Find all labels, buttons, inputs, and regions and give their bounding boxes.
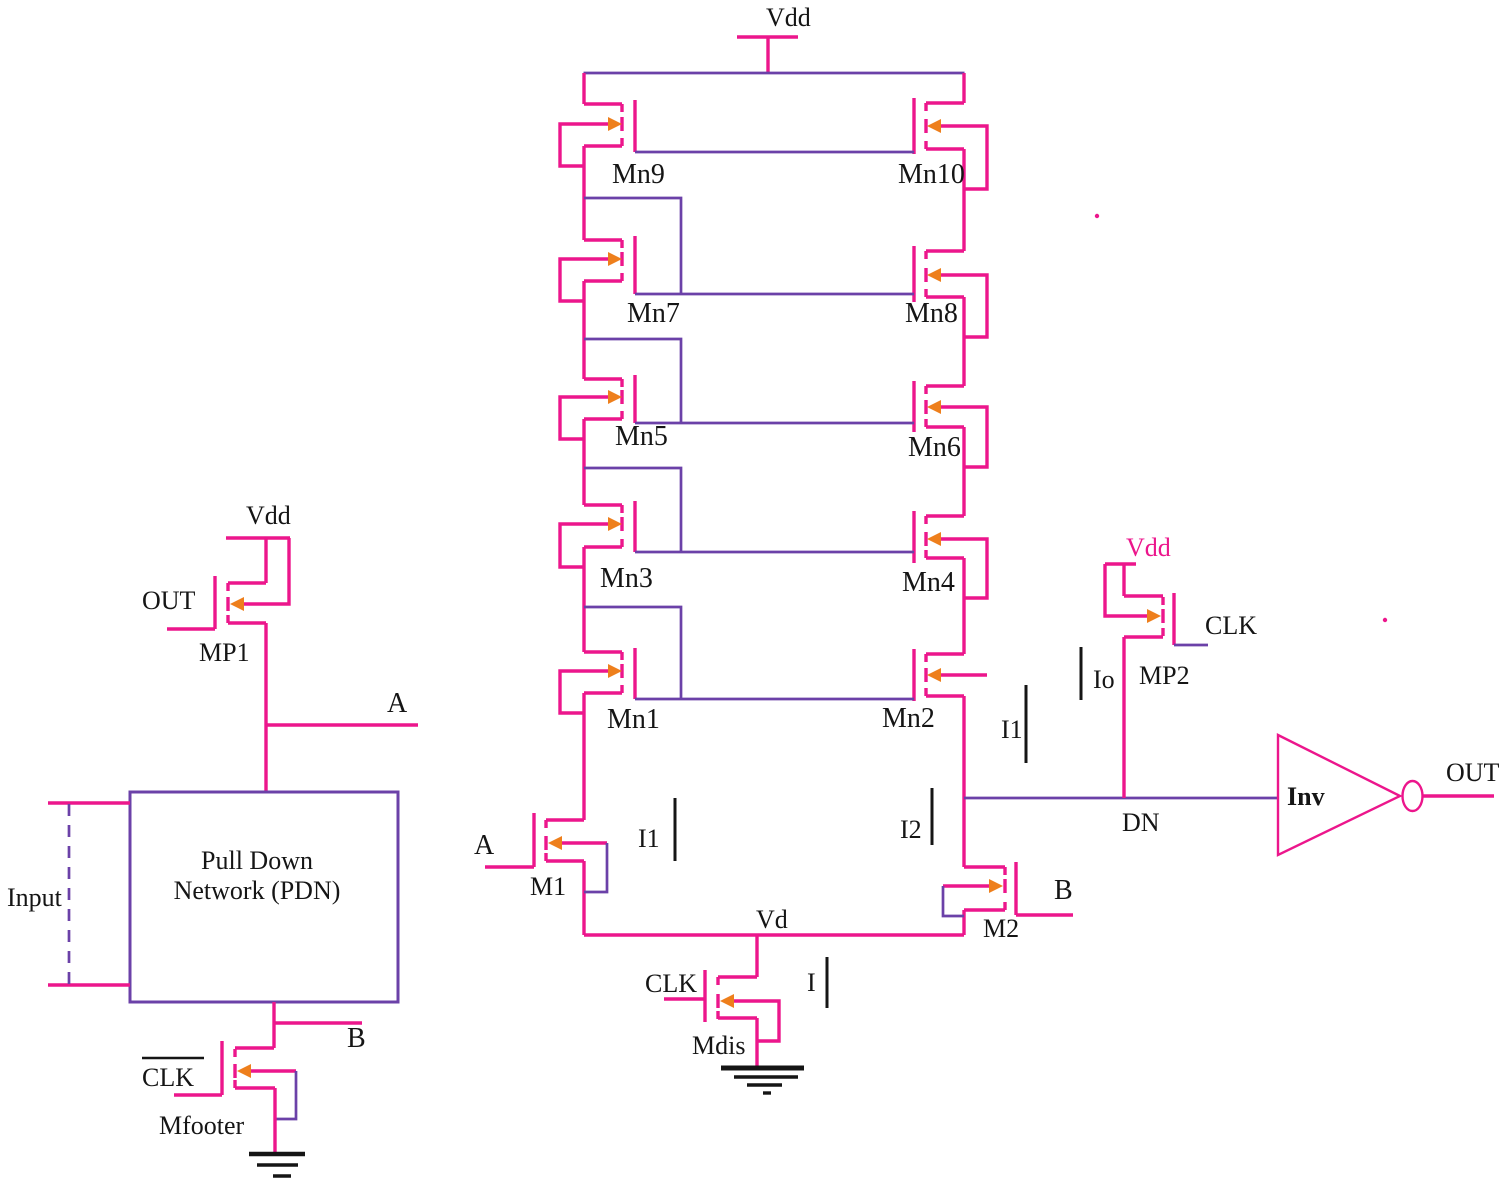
svg-text:Mn7: Mn7 (627, 298, 680, 329)
svg-text:Vd: Vd (756, 905, 788, 934)
svg-text:Vdd: Vdd (1126, 533, 1171, 562)
wire top rail (584, 72, 965, 75)
transistor M2 (943, 862, 1016, 916)
wire MP2 drain to DN (1122, 637, 1125, 798)
svg-text:A: A (474, 830, 495, 861)
current label I (807, 957, 827, 1008)
svg-text:Mfooter: Mfooter (159, 1111, 245, 1140)
svg-text:Mn5: Mn5 (615, 421, 668, 452)
svg-text:MP1: MP1 (199, 638, 250, 667)
wire left chain (582, 547, 585, 652)
inverter bubble (1403, 781, 1423, 811)
label CLK-bar (Mfooter gate) (142, 1058, 204, 1092)
svg-text:I1: I1 (1001, 715, 1023, 744)
svg-text:Mn4: Mn4 (902, 567, 955, 598)
svg-text:Io: Io (1093, 665, 1115, 694)
wire OUT (1423, 794, 1494, 797)
ground (Mdis) (721, 1068, 804, 1093)
wire gate jog (584, 468, 681, 552)
wire PDN to Mfooter (node B) (272, 1002, 275, 1048)
wire MP1 drain / node A (264, 623, 267, 792)
wire gate jog (584, 198, 681, 294)
ground (Mfooter) (249, 1154, 305, 1176)
transistor Mn10 (914, 98, 987, 189)
transistor Mn6 (914, 381, 987, 467)
power Vdd symbol (MP2) (1105, 562, 1136, 565)
wire right chain (962, 297, 965, 386)
svg-text:Mdis: Mdis (692, 1031, 745, 1060)
svg-text:A: A (387, 688, 408, 719)
svg-text:Mn1: Mn1 (607, 704, 660, 735)
svg-text:Inv: Inv (1287, 782, 1325, 811)
wire right chain (962, 910, 965, 935)
wire Input bottom (48, 983, 130, 986)
wire gate row (635, 151, 914, 154)
svg-text:Network (PDN): Network (PDN) (174, 876, 341, 905)
wire left chain (582, 693, 585, 820)
wire node DN (964, 797, 1278, 800)
power Vdd symbol (MP1) (226, 536, 290, 539)
svg-text:CLK: CLK (142, 1063, 194, 1092)
svg-text:Input: Input (7, 883, 63, 912)
wire left chain (582, 419, 585, 505)
transistor MP1 (215, 538, 289, 629)
svg-text:Mn10: Mn10 (898, 159, 965, 190)
current label I1 (left) (638, 798, 675, 861)
transistor Mn5 (560, 375, 635, 439)
wire gate row (635, 293, 914, 296)
block Pull Down Network (PDN) (130, 792, 398, 1002)
transistor Mn2 (914, 649, 987, 701)
transistor Mn1 (560, 648, 635, 713)
svg-text:Mn8: Mn8 (905, 298, 958, 329)
wire gate row (635, 422, 914, 425)
transistor M1 (534, 813, 607, 892)
wire node B input (M2 gate) (1016, 913, 1073, 916)
svg-text:Vdd: Vdd (766, 3, 811, 32)
wire left chain (582, 281, 585, 379)
svg-text:OUT: OUT (1446, 758, 1500, 787)
svg-text:CLK: CLK (1205, 611, 1257, 640)
svg-text:M1: M1 (530, 872, 566, 901)
transistor Mn3 (560, 501, 635, 567)
wire CLK input (MP2 gate) (1174, 644, 1208, 647)
wire gate row (635, 551, 914, 554)
svg-text:Mn6: Mn6 (908, 432, 961, 463)
wire left chain (582, 73, 585, 104)
current label I2 (900, 788, 932, 845)
dot artifact 1 (1095, 214, 1099, 218)
wire Mdis source to ground (755, 1018, 758, 1068)
svg-text:Mn3: Mn3 (600, 563, 653, 594)
wire Input dashed bus (68, 804, 71, 988)
wire node A stub (266, 723, 418, 726)
wire node B stub (274, 1021, 362, 1024)
svg-text:Mn2: Mn2 (882, 703, 935, 734)
svg-text:MP2: MP2 (1139, 661, 1190, 690)
transistor MP2 (1105, 564, 1174, 645)
wire node A input (M1 gate) (485, 865, 534, 868)
transistor Mn8 (914, 246, 987, 337)
svg-text:Pull Down: Pull Down (201, 846, 313, 875)
transistor Mn4 (914, 511, 987, 598)
wire node Vd rail (584, 933, 964, 936)
op-amp/inverter Inv (1278, 735, 1400, 855)
wire gate jog (584, 607, 681, 699)
svg-text:B: B (347, 1023, 366, 1054)
wire CLK input (Mdis gate) (664, 997, 705, 1000)
current label Io (1081, 647, 1115, 700)
transistor Mn7 (560, 236, 635, 301)
svg-text:Mn9: Mn9 (612, 159, 665, 190)
wire left chain (582, 146, 585, 240)
svg-text:I2: I2 (900, 815, 922, 844)
wire CLKbar input (Mfooter gate) (174, 1093, 222, 1096)
transistor Mfooter (222, 1041, 296, 1119)
transistor Mn9 (560, 100, 635, 166)
wire gate row (635, 698, 914, 701)
svg-text:OUT: OUT (142, 586, 196, 615)
svg-text:CLK: CLK (645, 969, 697, 998)
svg-text:I: I (807, 968, 816, 997)
wire Input top (48, 801, 130, 804)
wire right chain (962, 427, 965, 516)
current label I1 (right) (1001, 685, 1026, 763)
wire right chain (962, 149, 965, 251)
transistor Mdis (705, 970, 779, 1041)
svg-text:M2: M2 (983, 914, 1019, 943)
dot artifact 2 (1383, 618, 1387, 622)
svg-text:B: B (1054, 875, 1073, 906)
wire right chain (962, 73, 965, 103)
wire left chain (582, 861, 585, 935)
wire OUT (MP1 gate) (167, 627, 215, 630)
svg-text:I1: I1 (638, 824, 660, 853)
wire gate jog (584, 339, 681, 423)
svg-text:DN: DN (1122, 808, 1160, 837)
wire right chain (962, 696, 965, 867)
power Vdd symbol (top) (737, 37, 798, 73)
wire Vd to Mdis drain (755, 935, 758, 977)
svg-text:Vdd: Vdd (246, 501, 291, 530)
wire right chain (962, 558, 965, 654)
wire Mfooter source to ground (273, 1088, 276, 1154)
